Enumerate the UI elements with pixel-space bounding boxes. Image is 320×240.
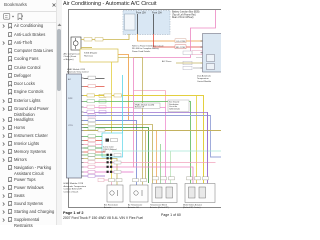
in-line connector pairs	[107, 154, 122, 174]
wire: gray stub to module	[193, 67, 203, 69]
document title	[63, 1, 156, 7]
wire: blank stub to module	[196, 57, 203, 59]
svg-text:PWR: PWR	[68, 98, 73, 100]
cyan connector box	[102, 133, 123, 157]
wire: pink long low	[84, 162, 216, 164]
wiring diagram SVG	[0, 0, 221, 225]
wire: red stub low	[84, 151, 106, 153]
temp blend actuator box	[152, 184, 177, 203]
svg-text:Rear of Front Wheel): Rear of Front Wheel)	[172, 16, 194, 19]
wire: orange vertical from tan	[145, 131, 147, 182]
main document area	[56, 0, 221, 225]
label chip C230 orange	[175, 39, 186, 43]
wire: yellow vertical from splice to actuator	[111, 62, 113, 179]
svg-text:Automatic Temp Control: Automatic Temp Control	[67, 70, 89, 73]
module internal part 1	[207, 55, 215, 62]
label chip red	[175, 45, 186, 49]
wire: red fuse F2 output to module	[154, 34, 203, 47]
bookmarks sidebar	[0, 0, 57, 225]
svg-text:Refer to Power Distribution Ci: Refer to Power Distribution Circuit	[132, 45, 164, 48]
wire: red stub	[84, 86, 105, 88]
wire: clutch to splice	[81, 47, 92, 49]
svg-text:Behind I/P: Behind I/P	[135, 107, 145, 109]
svg-text:Fuse 10A: Fuse 10A	[152, 12, 162, 15]
diagram frame	[69, 10, 229, 208]
wire: pink jog	[134, 90, 166, 92]
svg-text:Power Feed Details: Power Feed Details	[132, 50, 150, 53]
wire: lt green vertical to blend	[170, 151, 172, 184]
wire: purple stub low	[84, 175, 106, 177]
wire: dark green elbow	[84, 128, 149, 184]
svg-text:OG C230: OG C230	[176, 41, 186, 43]
svg-text:HVAC Module C228: HVAC Module C228	[64, 182, 84, 185]
HVAC control module (left tall box)	[67, 74, 82, 178]
svg-text:Control Module: Control Module	[197, 80, 212, 83]
wire: long green	[84, 102, 191, 184]
svg-text:Control, Behind I/P,: Control, Behind I/P,	[64, 188, 83, 191]
wire: pink vertical	[133, 58, 135, 168]
wire: blue elbow to actuator LH	[84, 121, 137, 186]
wire: olive to recirc	[84, 159, 118, 186]
wire: green vertical to blend	[156, 131, 158, 184]
module pin ticks	[201, 41, 203, 68]
wire: pink feed from top right	[134, 10, 216, 58]
wire: purple branch down	[207, 112, 209, 183]
svg-text:of Engine): of Engine)	[64, 59, 74, 61]
wire: yellow from clutch up to BJB	[81, 34, 129, 40]
footer: page captions	[63, 210, 84, 215]
svg-text:(Behind I/P, Center): (Behind I/P, Center)	[183, 206, 201, 209]
wire: pink elbow to mode	[84, 167, 194, 184]
wires into in-line connector	[84, 136, 103, 138]
svg-text:Clutch (Front: Clutch (Front	[64, 55, 77, 58]
svg-text:RD C230: RD C230	[176, 47, 186, 49]
wire: green stub low	[84, 154, 110, 156]
svg-text:CTRL: CTRL	[68, 125, 73, 127]
wire: green vertical 2	[160, 144, 162, 184]
HVAC note chip	[134, 103, 160, 108]
svg-text:Dual Automatic: Dual Automatic	[197, 75, 211, 78]
svg-text:A/C Compressor: A/C Compressor	[64, 53, 80, 56]
fuse F1	[137, 14, 139, 34]
air temp actuator box	[130, 185, 148, 202]
wire: olive from splice down right side	[118, 58, 143, 185]
A/C control module box (right)	[203, 34, 229, 73]
wire: olive elbow	[84, 125, 153, 184]
module internal part 2	[207, 64, 215, 70]
svg-text:Center of Dash: Center of Dash	[64, 190, 79, 193]
svg-text:Battery Junction Box (BJB): Battery Junction Box (BJB)	[172, 11, 200, 14]
wire: olive to module	[176, 62, 203, 64]
recirc actuator box	[107, 185, 123, 202]
wire: cyan vertical	[122, 75, 124, 133]
wire: magenta low	[84, 171, 134, 173]
label chips on yellow	[84, 38, 92, 41]
svg-text:Fuse 15A: Fuse 15A	[136, 12, 146, 15]
A/C compressor clutch box	[71, 37, 81, 50]
wire: orange from splice	[118, 55, 129, 121]
connector symbol in cyan box	[106, 139, 110, 142]
svg-text:S156 (Engine: S156 (Engine	[84, 53, 98, 55]
wire: yellow branch	[196, 96, 198, 184]
svg-text:(Top of Left Frame Rail,: (Top of Left Frame Rail,	[172, 13, 196, 16]
svg-text:A/C Press: A/C Press	[162, 60, 171, 63]
svg-text:Actuator LH: Actuator LH	[128, 206, 139, 209]
sidebar scrollbar	[57, 0, 62, 225]
svg-text:Automatic Temperature: Automatic Temperature	[64, 185, 87, 188]
wire: black stub	[84, 78, 105, 80]
wire: pink elbow into recirc	[104, 180, 112, 185]
ground splice box (yellow outline)	[80, 49, 118, 62]
module pin stubs	[82, 78, 84, 176]
clutch coil symbol	[73, 41, 78, 46]
svg-text:G200 Details: G200 Details	[169, 108, 180, 111]
battery junction box (BJB)	[123, 11, 170, 35]
svg-text:Temperature: Temperature	[197, 77, 210, 80]
second chip column	[99, 94, 106, 97]
motor symbol	[110, 191, 114, 195]
svg-text:Actuator (Behind I/P): Actuator (Behind I/P)	[150, 206, 169, 209]
wire: purple long	[84, 113, 208, 184]
close X	[52, 3, 56, 7]
wire: orange fuse F1 output to module	[138, 34, 203, 41]
wire: magenta mid	[84, 116, 222, 158]
fuse F2	[153, 14, 155, 34]
mode select actuator box	[185, 184, 215, 203]
svg-text:Harness): Harness)	[84, 54, 93, 57]
BJB inner relay box	[125, 14, 136, 30]
connector chips above bottom boxes	[109, 179, 115, 182]
module pin chips	[183, 51, 192, 55]
toolbar icons	[3, 13, 23, 21]
bookmark list	[0, 0, 221, 1]
svg-text:Actuator: Actuator	[104, 206, 112, 209]
wire label chips left column	[88, 119, 96, 122]
wire: cyan horizontal low	[112, 150, 221, 152]
wire: pink to vertical	[84, 108, 166, 184]
svg-text:SD-100 for Complete Battery: SD-100 for Complete Battery	[132, 47, 160, 50]
wire: long yellow bus	[84, 96, 204, 184]
wire: tan full width	[84, 130, 222, 132]
label chip pink	[192, 51, 202, 55]
right note chip	[168, 100, 189, 112]
